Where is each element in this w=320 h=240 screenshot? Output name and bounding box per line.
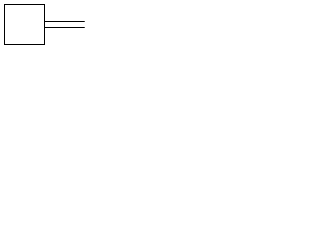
component box U1 (generic block symbol) <box>4 4 45 45</box>
wire end antialias pixel (lower) <box>84 27 85 28</box>
wire (lower terminal) <box>45 27 84 28</box>
wire (upper terminal) <box>45 21 84 22</box>
wire end antialias pixel (upper) <box>84 21 85 22</box>
